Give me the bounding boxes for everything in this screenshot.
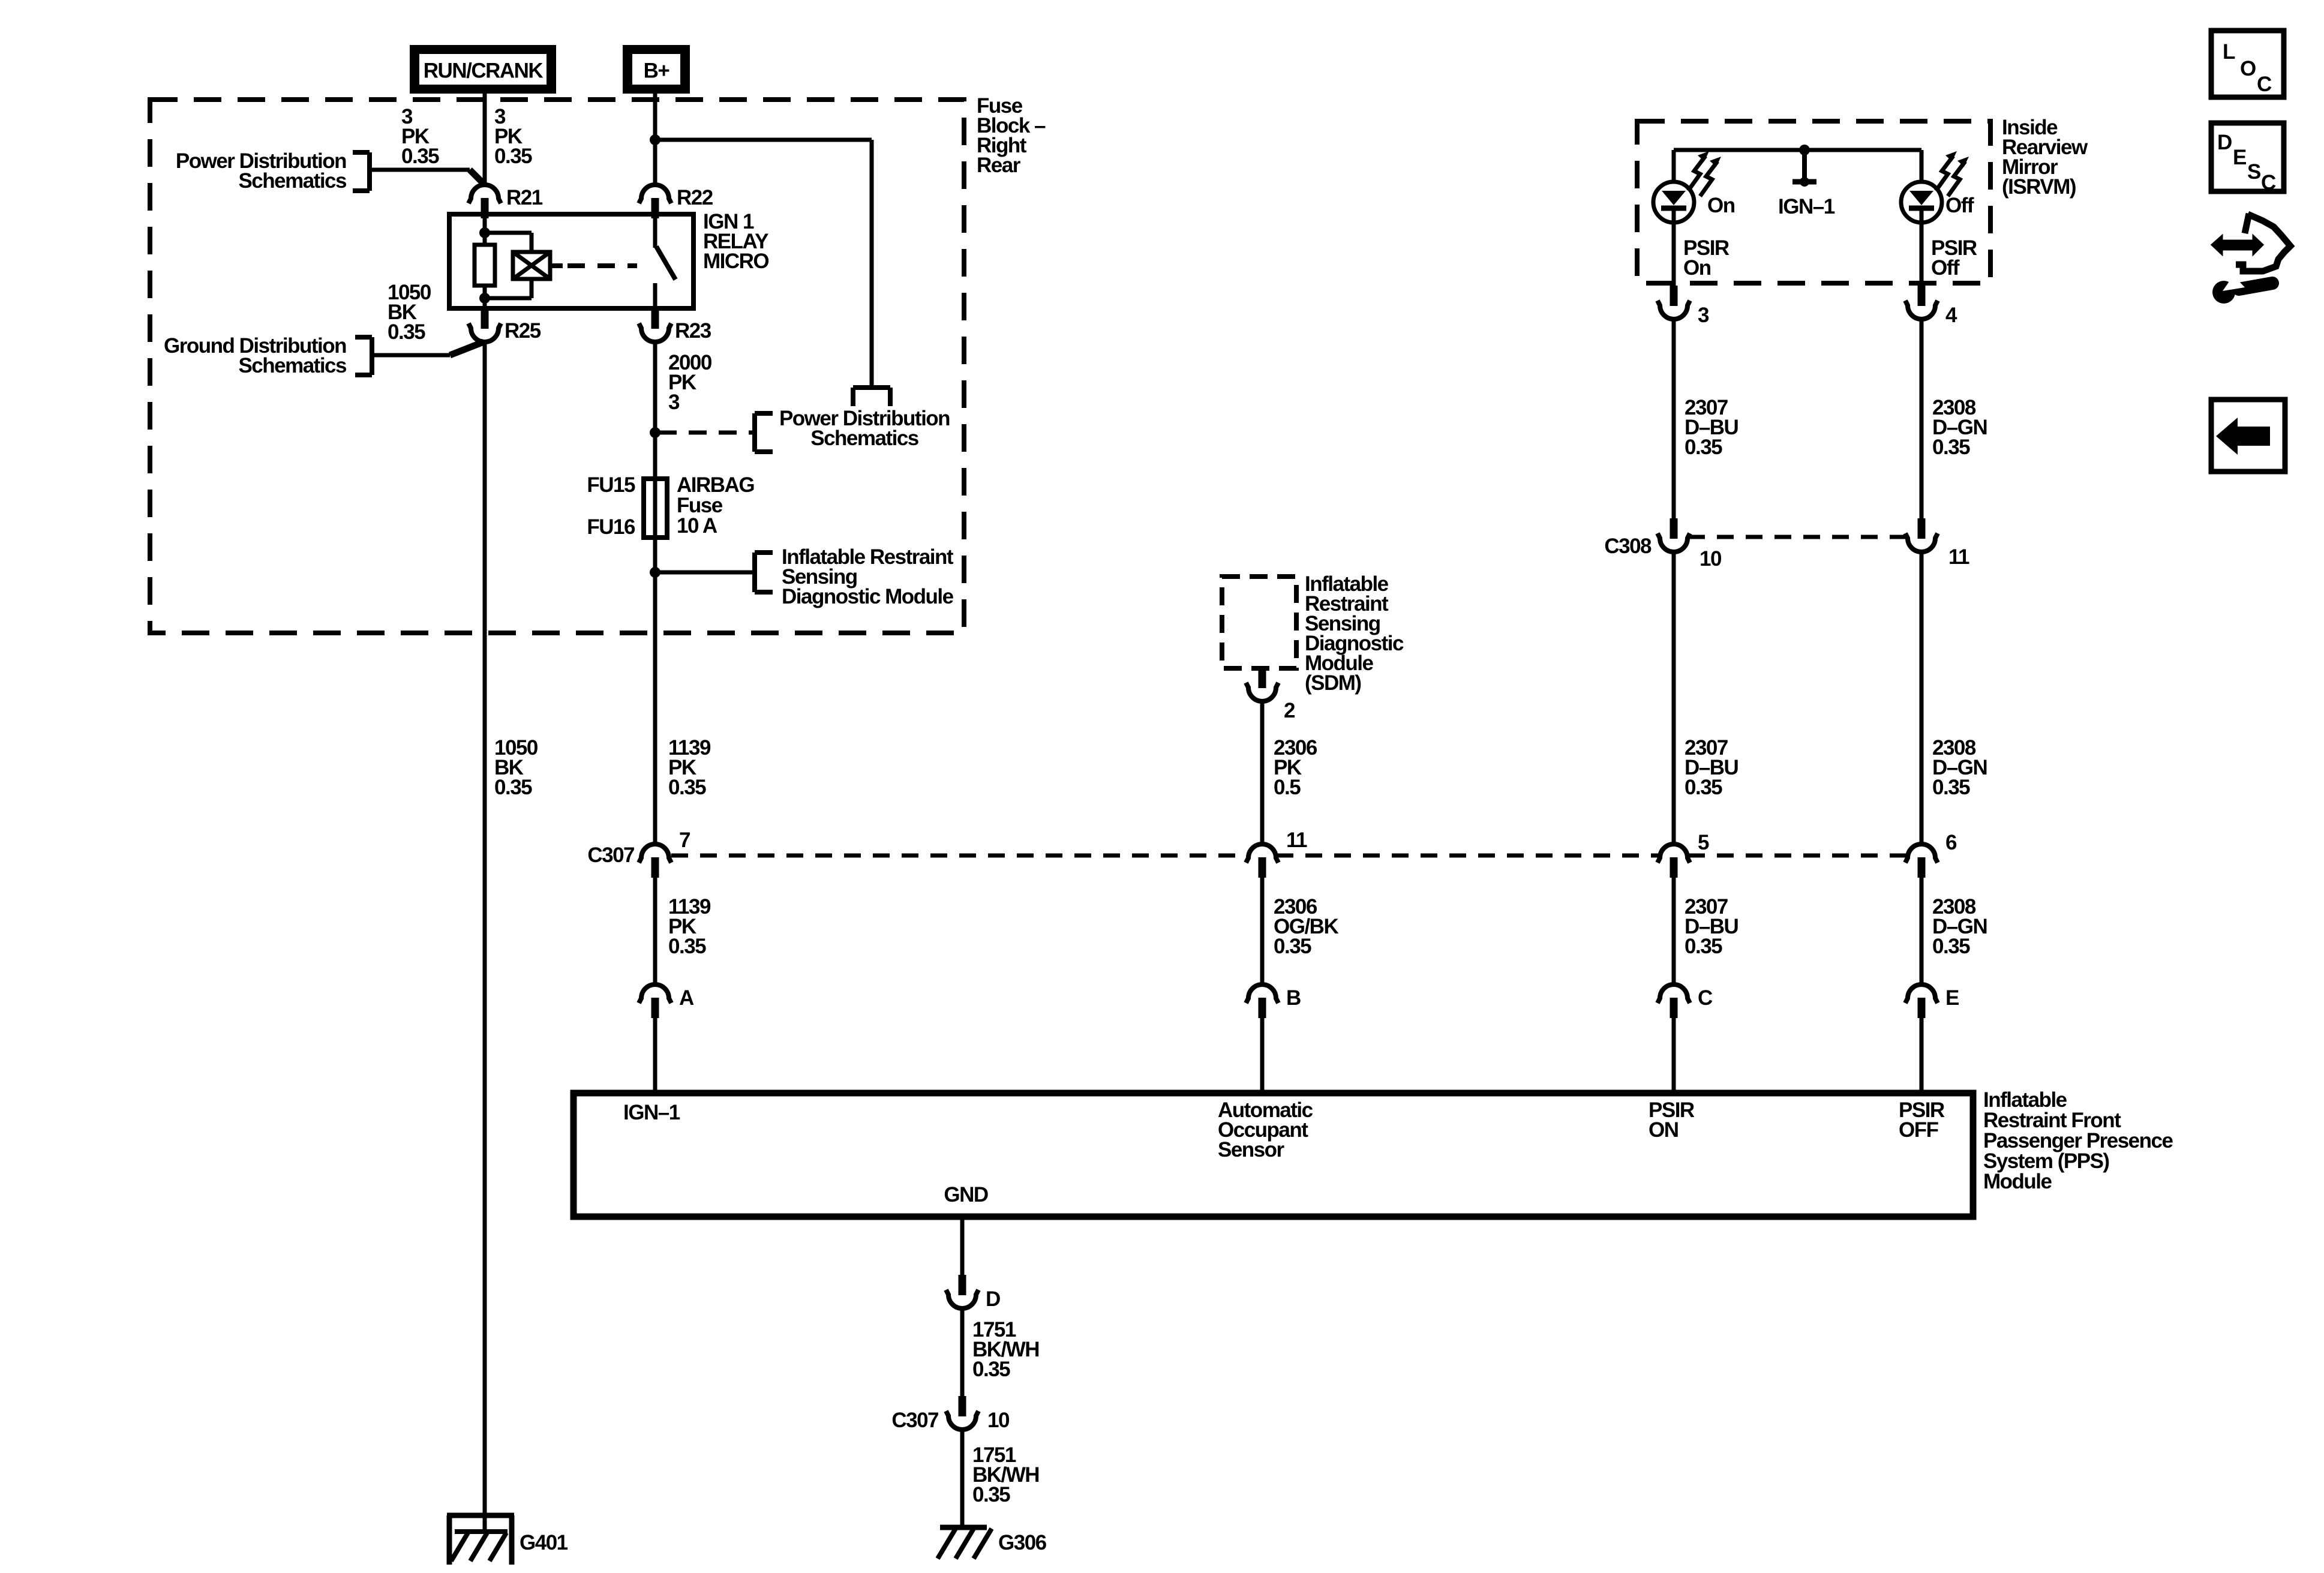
svg-text:10 A: 10 A bbox=[677, 514, 717, 538]
svg-text:R22: R22 bbox=[677, 186, 713, 209]
svg-text:RUN/CRANK: RUN/CRANK bbox=[424, 59, 544, 83]
svg-text:Diagnostic Module: Diagnostic Module bbox=[782, 585, 954, 608]
svg-text:11: 11 bbox=[1286, 828, 1307, 852]
svg-text:0.35: 0.35 bbox=[1274, 935, 1311, 958]
svg-text:4: 4 bbox=[1945, 304, 1957, 327]
svg-text:Sensor: Sensor bbox=[1218, 1138, 1285, 1161]
svg-text:6: 6 bbox=[1945, 831, 1957, 854]
svg-text:G306: G306 bbox=[998, 1531, 1047, 1554]
svg-text:B: B bbox=[1286, 986, 1301, 1010]
svg-text:C307: C307 bbox=[587, 843, 634, 867]
svg-text:0.35: 0.35 bbox=[388, 320, 425, 344]
svg-text:R21: R21 bbox=[506, 186, 543, 209]
svg-text:L: L bbox=[2223, 40, 2235, 64]
svg-text:R23: R23 bbox=[675, 319, 711, 343]
svg-text:0.35: 0.35 bbox=[668, 776, 706, 799]
svg-text:0.35: 0.35 bbox=[494, 145, 532, 168]
svg-text:Off: Off bbox=[1945, 194, 1974, 217]
svg-text:0.35: 0.35 bbox=[1932, 776, 1970, 799]
svg-text:G401: G401 bbox=[520, 1531, 568, 1554]
svg-text:R25: R25 bbox=[505, 319, 541, 343]
svg-text:11: 11 bbox=[1948, 545, 1969, 569]
svg-text:O: O bbox=[2240, 57, 2256, 80]
svg-text:C: C bbox=[1698, 986, 1713, 1010]
svg-text:C307: C307 bbox=[891, 1409, 938, 1432]
svg-text:D: D bbox=[986, 1287, 1000, 1311]
svg-text:D: D bbox=[2217, 131, 2232, 154]
svg-text:0.35: 0.35 bbox=[1685, 436, 1722, 459]
svg-text:5: 5 bbox=[1698, 831, 1709, 854]
svg-text:0.35: 0.35 bbox=[1932, 436, 1970, 459]
svg-text:FU16: FU16 bbox=[587, 515, 635, 539]
svg-text:FU15: FU15 bbox=[587, 473, 635, 497]
svg-text:Off: Off bbox=[1931, 256, 1960, 280]
svg-text:A: A bbox=[679, 986, 694, 1010]
svg-text:GND: GND bbox=[944, 1183, 988, 1206]
svg-text:0.35: 0.35 bbox=[494, 776, 532, 799]
svg-text:OFF: OFF bbox=[1899, 1118, 1939, 1142]
svg-text:E: E bbox=[1945, 986, 1959, 1010]
svg-text:E: E bbox=[2233, 146, 2246, 169]
svg-text:MICRO: MICRO bbox=[703, 250, 768, 273]
svg-text:On: On bbox=[1683, 256, 1711, 280]
svg-text:Schematics: Schematics bbox=[810, 427, 919, 450]
svg-text:3: 3 bbox=[1698, 304, 1709, 327]
svg-text:Module: Module bbox=[1983, 1170, 2052, 1193]
svg-text:0.35: 0.35 bbox=[1685, 776, 1722, 799]
svg-text:ON: ON bbox=[1649, 1118, 1679, 1142]
svg-text:S: S bbox=[2247, 160, 2260, 184]
svg-text:0.35: 0.35 bbox=[972, 1358, 1010, 1381]
svg-text:C308: C308 bbox=[1604, 535, 1652, 558]
svg-text:10: 10 bbox=[987, 1409, 1010, 1432]
svg-text:B+: B+ bbox=[644, 59, 670, 83]
svg-text:0.35: 0.35 bbox=[668, 935, 706, 958]
svg-text:0.35: 0.35 bbox=[1932, 935, 1970, 958]
svg-text:0.35: 0.35 bbox=[401, 145, 439, 168]
svg-text:IGN–1: IGN–1 bbox=[623, 1101, 680, 1124]
svg-text:Schematics: Schematics bbox=[238, 354, 347, 377]
svg-text:0.35: 0.35 bbox=[1685, 935, 1722, 958]
svg-text:10: 10 bbox=[1700, 547, 1722, 571]
svg-text:IGN–1: IGN–1 bbox=[1778, 195, 1835, 218]
svg-text:(SDM): (SDM) bbox=[1305, 671, 1361, 695]
svg-text:Schematics: Schematics bbox=[238, 169, 347, 193]
svg-text:C: C bbox=[2257, 73, 2272, 96]
svg-text:7: 7 bbox=[679, 828, 690, 852]
svg-text:C: C bbox=[2261, 171, 2276, 194]
svg-text:On: On bbox=[1707, 194, 1735, 217]
svg-text:2: 2 bbox=[1284, 699, 1295, 722]
svg-text:Rear: Rear bbox=[977, 154, 1021, 177]
svg-text:0.35: 0.35 bbox=[972, 1483, 1010, 1506]
svg-text:(ISRVM): (ISRVM) bbox=[2002, 175, 2076, 199]
svg-text:3: 3 bbox=[668, 391, 680, 414]
svg-text:0.5: 0.5 bbox=[1274, 776, 1301, 799]
